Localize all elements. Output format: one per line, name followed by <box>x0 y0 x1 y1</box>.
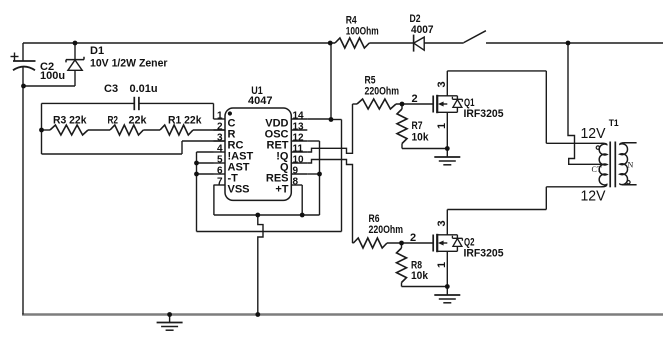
svg-text:10k: 10k <box>412 132 430 144</box>
svg-text:C3: C3 <box>104 83 118 95</box>
svg-text:10V 1/2W Zener: 10V 1/2W Zener <box>90 58 168 70</box>
svg-text:9: 9 <box>293 165 299 176</box>
svg-text:8: 8 <box>293 176 299 187</box>
svg-text:IRF3205: IRF3205 <box>464 108 504 120</box>
svg-text:R3 22k: R3 22k <box>53 115 87 127</box>
svg-text:T1: T1 <box>609 118 620 129</box>
svg-text:220Ohm: 220Ohm <box>369 224 404 236</box>
svg-text:4007: 4007 <box>411 24 434 36</box>
svg-text:12: 12 <box>293 132 305 143</box>
svg-text:10: 10 <box>293 154 305 165</box>
svg-text:+T: +T <box>275 184 288 196</box>
svg-text:4047: 4047 <box>248 95 273 107</box>
svg-text:0.01u: 0.01u <box>130 83 158 95</box>
svg-text:11: 11 <box>293 143 304 154</box>
svg-text:1: 1 <box>217 110 223 121</box>
svg-text:22k: 22k <box>129 115 148 127</box>
svg-text:4: 4 <box>217 143 223 154</box>
svg-text:3: 3 <box>436 220 448 226</box>
svg-text:12V: 12V <box>581 188 606 205</box>
svg-text:R1 22k: R1 22k <box>168 115 202 127</box>
svg-text:2: 2 <box>217 121 223 132</box>
svg-text:1: 1 <box>436 123 448 129</box>
svg-text:100Ohm: 100Ohm <box>346 26 379 38</box>
svg-text:3: 3 <box>217 132 223 143</box>
svg-text:100u: 100u <box>40 70 65 82</box>
svg-text:10k: 10k <box>411 270 429 282</box>
svg-text:220Ohm: 220Ohm <box>365 86 400 98</box>
svg-text:6: 6 <box>217 165 223 176</box>
svg-text:12V: 12V <box>581 125 606 142</box>
svg-text:N: N <box>628 161 634 170</box>
svg-text:13: 13 <box>293 121 305 132</box>
svg-text:14: 14 <box>293 110 305 121</box>
svg-text:2: 2 <box>410 232 416 244</box>
svg-text:R7: R7 <box>412 120 423 132</box>
svg-text:1: 1 <box>436 262 448 268</box>
svg-text:VSS: VSS <box>228 184 250 196</box>
svg-text:5: 5 <box>217 154 223 165</box>
svg-text:IRF3205: IRF3205 <box>464 248 504 260</box>
svg-text:3: 3 <box>436 81 448 87</box>
svg-text:CT: CT <box>592 165 602 174</box>
svg-text:7: 7 <box>217 176 223 187</box>
svg-text:D1: D1 <box>90 45 104 57</box>
svg-text:R2: R2 <box>108 115 119 127</box>
svg-text:2: 2 <box>411 93 417 105</box>
